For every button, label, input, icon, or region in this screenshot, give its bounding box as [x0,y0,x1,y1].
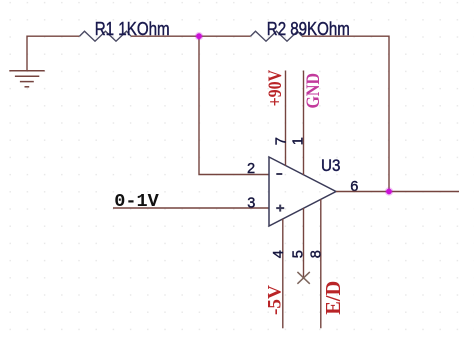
resistor R2 [251,31,303,41]
svg-text:6: 6 [350,179,358,195]
svg-text:U3: U3 [321,156,341,175]
wire node A to R2 [199,35,251,37]
node A junction [195,32,203,40]
wire R1 to node A [131,35,199,37]
svg-text:-5V: -5V [265,285,286,315]
wire ground to R1 [27,36,80,70]
svg-text:+90V: +90V [265,70,286,107]
pin 7 wire [285,71,287,166]
resistor R1 [80,31,132,41]
minus symbol [276,173,282,175]
no-connect X on pin 5 [297,272,309,284]
wire node A down to pin 2 [199,36,269,174]
pin 1 wire [303,71,305,175]
op-amp U3 [269,157,336,226]
svg-text:8: 8 [308,250,324,258]
pin 4 wire [282,219,284,328]
svg-text:7: 7 [273,137,289,145]
wire node B to right [389,191,459,193]
svg-text:5: 5 [291,250,307,258]
svg-text:E/D: E/D [321,281,345,315]
wire R2 to node B [302,36,389,191]
svg-text:3: 3 [247,196,255,212]
wire input 0-1V to pin 3 [113,207,269,209]
wire op-amp output to node B [336,191,389,193]
svg-text:1: 1 [291,137,307,145]
svg-text:2: 2 [247,161,255,177]
node B junction [385,187,393,195]
svg-text:0-1V: 0-1V [114,191,159,212]
svg-text:4: 4 [271,250,287,258]
ground [9,71,44,87]
pin 5 wire [303,208,305,278]
plus symbol [276,205,284,212]
svg-text:GND: GND [303,73,324,109]
pin 8 wire [320,199,322,328]
